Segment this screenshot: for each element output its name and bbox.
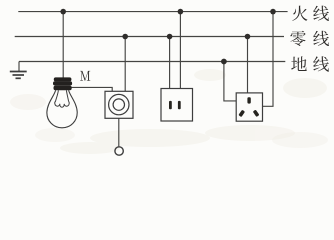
wire socket2 neutral drop <box>169 37 171 89</box>
wire socket2 live drop <box>179 12 181 89</box>
junction node earth/socket3 <box>221 59 227 65</box>
socket3 earth slot <box>247 97 250 103</box>
wire socket3 earth drop <box>224 62 236 101</box>
socket3 (three-hole) body <box>236 93 262 121</box>
label earth 地线 <box>291 56 307 71</box>
background paper <box>0 0 334 157</box>
wire neutral line (lingxian) <box>15 36 284 38</box>
lamp filament leads <box>55 90 68 101</box>
junction node live/socket2 <box>178 9 184 15</box>
socket2 left slot <box>169 101 172 109</box>
wire lamp drop from live <box>62 12 64 78</box>
junction node neutral/socket3 <box>245 34 251 40</box>
junction node live/lamp <box>60 9 66 15</box>
label neutral 零线 <box>290 31 305 46</box>
wire earth line (dixian) <box>19 61 285 63</box>
wire live line (huoxian) <box>18 11 287 13</box>
socket2 (two-hole) body <box>161 89 193 122</box>
label live 火线 <box>292 6 307 21</box>
motor M1 case <box>105 91 133 118</box>
ground symbol <box>10 72 27 79</box>
motor inner circle <box>113 99 124 110</box>
junction node neutral/socket2 <box>167 34 173 40</box>
lamp screw base <box>53 77 72 90</box>
motor label M <box>80 71 90 81</box>
junction node neutral/motor <box>122 34 128 40</box>
lamp filament <box>55 101 69 107</box>
wire motor bottom lead <box>118 118 120 146</box>
wire socket3 live drop <box>263 12 274 107</box>
junction node live/socket3 <box>270 9 276 15</box>
ground lead <box>18 62 20 72</box>
wire socket3 neutral drop <box>247 37 249 93</box>
wire motor drop from neutral <box>124 37 126 92</box>
wire lamp side to motor box <box>72 87 113 91</box>
motor pull terminal circle <box>115 147 123 155</box>
motor outer circle <box>109 94 129 114</box>
lamp bulb glass <box>47 90 77 128</box>
socket2 right slot <box>178 101 181 109</box>
socket3 right slot <box>253 110 260 117</box>
socket3 left slot <box>238 110 245 117</box>
